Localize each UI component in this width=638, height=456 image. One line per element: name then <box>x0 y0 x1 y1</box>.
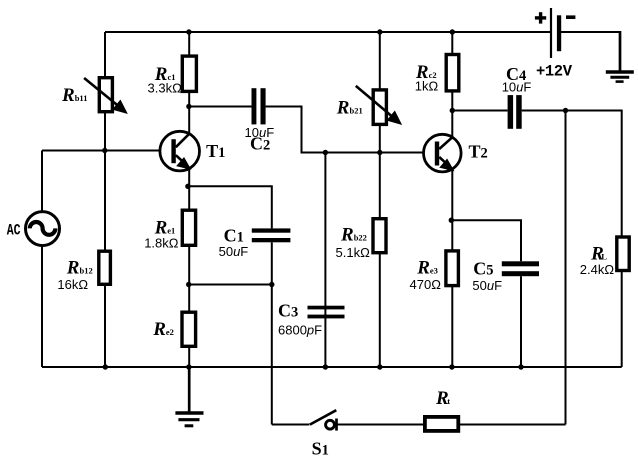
svg-text:470Ω: 470Ω <box>410 277 442 292</box>
svg-text:1kΩ: 1kΩ <box>415 79 439 94</box>
svg-text:Rt: Rt <box>435 388 450 409</box>
svg-text:50uF: 50uF <box>472 278 502 293</box>
svg-text:16kΩ: 16kΩ <box>57 277 88 292</box>
svg-text:2.4kΩ: 2.4kΩ <box>580 262 615 277</box>
svg-text:+12V: +12V <box>536 62 573 80</box>
svg-text:3.3kΩ: 3.3kΩ <box>148 81 183 96</box>
svg-text:50uF: 50uF <box>219 244 249 259</box>
svg-text:AC: AC <box>7 222 21 240</box>
svg-text:10uF: 10uF <box>502 79 532 94</box>
svg-text:6800pF: 6800pF <box>278 323 322 338</box>
svg-text:5.1kΩ: 5.1kΩ <box>336 245 371 260</box>
svg-text:1.8kΩ: 1.8kΩ <box>144 236 179 251</box>
